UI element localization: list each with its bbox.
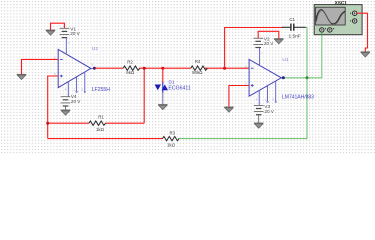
wire green bottom rail and C1 feedback riser	[179, 28, 308, 139]
svg-text:R2: R2	[127, 60, 133, 65]
wire U1 plus input to ground g5	[229, 86, 249, 107]
resistor R2	[123, 66, 140, 70]
ground g7	[254, 123, 263, 128]
svg-text:LM741AH/883: LM741AH/883	[282, 95, 314, 101]
wire top feedback run	[225, 28, 283, 69]
resistor R4	[191, 66, 207, 70]
wire diac drop	[162, 68, 164, 82]
svg-text:1.5nF: 1.5nF	[289, 33, 301, 39]
oscilloscope terminal bottom 1	[320, 28, 327, 36]
battery V3	[254, 105, 264, 123]
op-amp U2	[58, 38, 96, 97]
wire oscilloscope right terminal to ground g6	[357, 13, 368, 52]
oscilloscope XSC1 body	[314, 5, 362, 35]
svg-text:ECG6411: ECG6411	[168, 85, 191, 91]
svg-text:20 V: 20 V	[264, 109, 274, 114]
svg-text:LF255H: LF255H	[92, 87, 111, 93]
wire U2 output main run	[95, 67, 250, 69]
svg-text:1kΩ: 1kΩ	[96, 127, 104, 132]
resistor R3	[163, 136, 179, 140]
oscilloscope screen	[316, 7, 346, 25]
oscilloscope terminal right A	[350, 11, 357, 15]
wire bottom rail to R3	[48, 138, 163, 140]
svg-text:U1: U1	[282, 57, 288, 63]
wire U2 plus input down to bottom rail	[48, 76, 59, 139]
svg-text:C1: C1	[289, 17, 295, 22]
capacitor C1	[282, 24, 306, 31]
battery V4	[61, 97, 71, 110]
svg-text:6kΩ: 6kΩ	[126, 70, 134, 75]
junction main wire and R1 feedback	[143, 67, 146, 70]
battery V1	[60, 28, 70, 37]
op-amp U1	[249, 48, 285, 106]
ground g6	[361, 52, 370, 57]
oscilloscope terminal right B	[350, 19, 357, 23]
ground g3	[158, 105, 167, 110]
label XSC1	[335, 1, 347, 4]
wire V2 top to ground g4	[258, 31, 279, 38]
junction main wire and top feedback	[223, 67, 226, 70]
diac D1	[155, 82, 168, 105]
svg-text:R1: R1	[98, 115, 104, 120]
ground g2	[17, 75, 26, 80]
svg-text:R3: R3	[169, 130, 175, 135]
oscilloscope terminal bottom 2	[328, 28, 335, 32]
svg-text:R4: R4	[195, 59, 201, 64]
svg-text:20 V: 20 V	[71, 99, 81, 104]
resistor R1	[89, 121, 105, 125]
wire R1 run	[48, 68, 145, 123]
junction green riser and output wire	[306, 76, 309, 79]
svg-text:1kΩ: 1kΩ	[167, 142, 175, 147]
svg-text:20 V: 20 V	[70, 31, 80, 36]
battery V2	[253, 38, 263, 47]
ground g5	[224, 107, 233, 112]
wire V1 top to ground g1	[51, 23, 65, 30]
svg-text:50kΩ: 50kΩ	[192, 70, 202, 75]
wire green U1 output to oscilloscope	[283, 31, 321, 78]
junction main wire and diac drop	[161, 67, 164, 70]
ground g1	[46, 30, 55, 35]
junction at R1 wire and plus-input drop	[46, 122, 49, 125]
svg-text:U2: U2	[92, 46, 98, 52]
ground g8	[61, 110, 70, 115]
svg-text:D1: D1	[169, 79, 175, 84]
wire U2 minus input to ground g2	[22, 59, 59, 74]
ground g4	[274, 39, 283, 44]
svg-text:20 V: 20 V	[264, 41, 274, 46]
